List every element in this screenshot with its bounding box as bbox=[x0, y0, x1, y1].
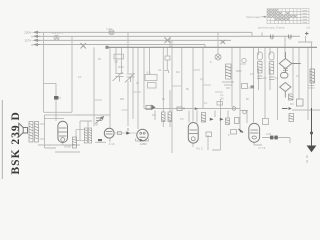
svg-text:3: 3 bbox=[306, 160, 308, 164]
svg-text:C Y2: C Y2 bbox=[259, 146, 266, 150]
svg-text:0,1: 0,1 bbox=[296, 75, 300, 78]
svg-text:0,05: 0,05 bbox=[266, 132, 272, 136]
svg-text:50: 50 bbox=[95, 123, 99, 127]
svg-text:0,1: 0,1 bbox=[200, 78, 204, 81]
svg-text:0,1: 0,1 bbox=[158, 69, 162, 72]
svg-text:220·127V: 220·127V bbox=[52, 31, 64, 35]
svg-text:0,1: 0,1 bbox=[78, 76, 82, 79]
svg-text:1 13: 1 13 bbox=[109, 142, 115, 146]
svg-text:a: a bbox=[306, 155, 308, 159]
svg-text:2M: 2M bbox=[263, 77, 266, 80]
svg-text:Fu 2: Fu 2 bbox=[197, 146, 203, 150]
svg-text:1M: 1M bbox=[176, 71, 179, 74]
svg-text:0,1: 0,1 bbox=[275, 77, 279, 80]
svg-text:5000: 5000 bbox=[236, 70, 242, 73]
svg-text:2019: 2019 bbox=[118, 66, 124, 69]
svg-text:0,1: 0,1 bbox=[147, 70, 152, 74]
svg-text:0,8A: 0,8A bbox=[107, 27, 113, 31]
svg-text:gemessen geg. Chassis: gemessen geg. Chassis bbox=[258, 26, 285, 29]
svg-text:2019: 2019 bbox=[64, 144, 71, 148]
svg-text:1M: 1M bbox=[290, 103, 293, 106]
svg-text:BSK 239 D: BSK 239 D bbox=[10, 111, 22, 174]
svg-text:o.B.: o.B. bbox=[306, 26, 311, 29]
svg-text:0,5: 0,5 bbox=[250, 73, 254, 76]
svg-text:0,5: 0,5 bbox=[180, 118, 184, 121]
svg-text:12BF: 12BF bbox=[140, 142, 148, 146]
svg-text:0,1: 0,1 bbox=[204, 102, 208, 105]
svg-text:127V~: 127V~ bbox=[24, 38, 33, 42]
svg-text:1M: 1M bbox=[152, 114, 155, 117]
svg-text:Spannungen: Spannungen bbox=[246, 15, 261, 19]
svg-text:2M: 2M bbox=[220, 96, 224, 100]
svg-text:500: 500 bbox=[120, 98, 125, 101]
svg-text:50: 50 bbox=[115, 59, 119, 63]
